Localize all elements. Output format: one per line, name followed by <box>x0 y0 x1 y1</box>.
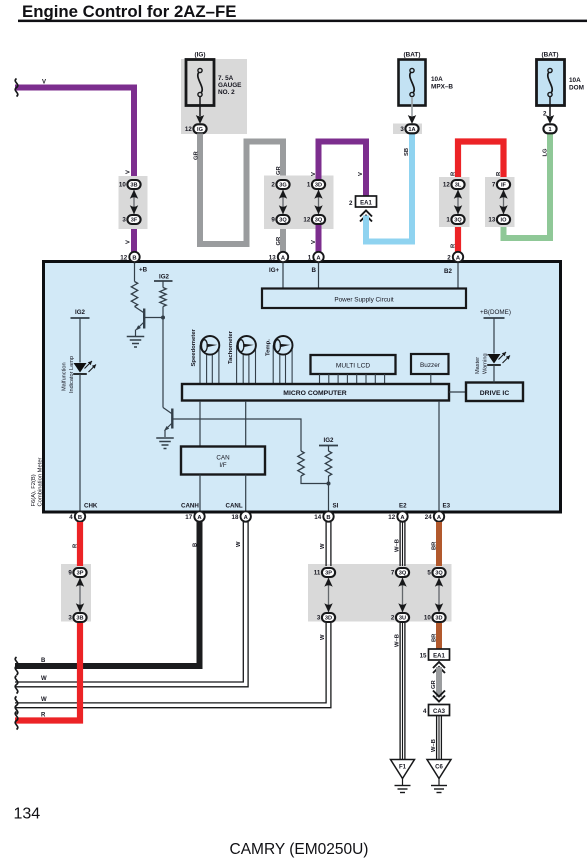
svg-text:IF: IF <box>501 183 507 189</box>
wire V (violet) from EA1 junction to meter pin 1A <box>311 142 366 253</box>
svg-text:EA1: EA1 <box>433 654 445 660</box>
svg-text:Buzzer: Buzzer <box>420 362 441 369</box>
svg-text:12: 12 <box>443 182 450 189</box>
svg-text:V: V <box>126 240 132 244</box>
title: Engine Control for 2AZ-FE <box>18 2 587 22</box>
transistor Q2 (NPN) <box>163 408 301 452</box>
IG2 rail with resistor R4 to SI <box>319 437 338 486</box>
svg-text:LG: LG <box>543 148 549 157</box>
svg-text:IG2: IG2 <box>75 309 86 316</box>
page number <box>14 806 41 823</box>
fuse 10A DOM (BAT) <box>537 52 584 134</box>
LED malfunction indicator lamp <box>62 356 97 393</box>
meter pin 4 B (CHK) <box>69 511 85 521</box>
svg-text:Power Supply Circuit: Power Supply Circuit <box>334 297 394 304</box>
wire W (white) SI to left harness <box>15 522 331 714</box>
svg-text:14: 14 <box>314 514 321 521</box>
svg-text:MPX–B: MPX–B <box>431 84 453 91</box>
svg-text:10: 10 <box>119 182 126 189</box>
svg-text:4: 4 <box>423 708 427 715</box>
svg-text:3P: 3P <box>325 571 332 577</box>
junction connector EA1 (bottom) <box>420 649 450 660</box>
svg-text:3P: 3P <box>77 571 84 577</box>
svg-text:Engine Control for 2AZ–FE: Engine Control for 2AZ–FE <box>22 2 236 21</box>
svg-text:2: 2 <box>391 615 395 622</box>
meter pin 1 A (B) <box>308 252 324 274</box>
E3 wire from micro computer <box>439 401 451 512</box>
svg-text:13: 13 <box>269 254 276 261</box>
svg-text:CA3: CA3 <box>433 709 446 715</box>
svg-text:3Q: 3Q <box>315 218 323 224</box>
svg-text:Warning: Warning <box>483 353 489 374</box>
svg-text:EA1: EA1 <box>360 201 372 207</box>
svg-text:W: W <box>320 634 326 640</box>
svg-text:IO: IO <box>501 218 508 224</box>
transistor Q1 (NPN) <box>135 307 164 337</box>
svg-text:2: 2 <box>447 254 451 261</box>
svg-text:B: B <box>312 267 317 274</box>
svg-text:GR: GR <box>194 150 200 160</box>
gauge speedometer <box>191 328 219 383</box>
svg-text:3G: 3G <box>279 183 286 189</box>
CAN I/F box <box>181 447 265 475</box>
svg-text:CANH: CANH <box>181 503 199 510</box>
svg-text:W: W <box>41 676 47 682</box>
footer CAMRY <box>230 841 369 858</box>
wire GR (gray) EA1 to CA3 <box>431 667 439 697</box>
svg-text:12: 12 <box>120 254 127 261</box>
svg-text:3D: 3D <box>315 183 322 189</box>
svg-text:I/F: I/F <box>219 462 226 469</box>
svg-text:(BAT): (BAT) <box>404 52 421 59</box>
svg-text:5: 5 <box>427 570 431 577</box>
svg-text:3: 3 <box>317 615 321 622</box>
svg-text:CAMRY (EM0250U): CAMRY (EM0250U) <box>230 841 369 858</box>
svg-text:12: 12 <box>303 217 310 224</box>
LED master warning <box>475 352 510 383</box>
power supply circuit box <box>262 289 466 309</box>
connector pair 3Q-3U <box>391 568 409 622</box>
svg-text:3B: 3B <box>130 183 137 189</box>
connector pair 3G-3Q <box>271 180 289 224</box>
wires CAN I/F to CANH/CANL pins <box>181 475 246 512</box>
connector pair IF-IO <box>488 180 510 224</box>
svg-text:CHK: CHK <box>84 503 98 510</box>
wire W-B CA3 to ground C6 <box>431 716 441 760</box>
meter pin 13 A (IG+) <box>269 252 288 274</box>
combination meter block F6(A) F2(B) <box>31 262 561 513</box>
svg-text:Speedometer: Speedometer <box>191 328 197 366</box>
svg-text:IG2: IG2 <box>159 274 170 281</box>
connector pair 3D-3Q <box>303 180 325 224</box>
wire B (black) CANH to left harness <box>15 522 200 675</box>
svg-text:18: 18 <box>232 514 239 521</box>
svg-text:7. 5A: 7. 5A <box>218 75 234 82</box>
meter pin 2 A (B2) <box>444 252 463 275</box>
connector pair 3P-3D <box>314 568 335 622</box>
svg-text:10A: 10A <box>431 76 443 83</box>
meter pin 24 A (E3) <box>425 511 444 521</box>
svg-text:7: 7 <box>492 182 496 189</box>
svg-text:V: V <box>126 170 132 174</box>
connector pair 3B-3F <box>119 180 141 224</box>
svg-text:B: B <box>132 255 136 261</box>
MULTI LCD box <box>311 355 396 385</box>
svg-text:12: 12 <box>185 126 192 133</box>
svg-text:1A: 1A <box>408 127 415 133</box>
svg-text:F1: F1 <box>399 765 407 771</box>
node SI wire <box>329 484 339 512</box>
buzzer box <box>411 354 449 385</box>
svg-text:IG2: IG2 <box>324 437 335 444</box>
drive IC box <box>449 383 523 402</box>
connector band gray background (SI/E2/E3) <box>308 564 452 622</box>
svg-text:R: R <box>41 713 46 719</box>
svg-text:+B: +B <box>139 267 148 274</box>
wire node to transistor Q2 <box>162 318 164 408</box>
svg-text:W–B: W–B <box>395 539 401 552</box>
fuse F1 7.5A GAUGE NO.2 (IG) <box>181 52 247 135</box>
svg-text:E3: E3 <box>443 503 451 510</box>
junction connector EA1 (top) <box>349 196 376 207</box>
svg-text:Indicator Lamp: Indicator Lamp <box>69 356 75 393</box>
wire GR (gray) from GAUGE fuse to meter pin 13A <box>194 134 284 253</box>
meter pin 14 B (SI) <box>314 511 333 521</box>
svg-text:E2: E2 <box>399 503 407 510</box>
svg-text:10A: 10A <box>569 77 581 84</box>
wire W-B E2 to ground F1 <box>395 522 405 759</box>
svg-text:9: 9 <box>271 217 275 224</box>
svg-text:Temp.: Temp. <box>266 339 272 356</box>
connector pair 3L-3Q <box>443 180 465 224</box>
micro computer box <box>182 384 449 401</box>
wires micro computer to CAN I/F <box>200 401 246 447</box>
svg-text:Combination Meter: Combination Meter <box>38 457 44 506</box>
svg-text:3F: 3F <box>131 218 138 224</box>
wire R (red) from 3L/3Q to meter pin 2A and to IF <box>451 142 504 253</box>
svg-text:11: 11 <box>314 570 321 577</box>
svg-text:3U: 3U <box>399 616 406 622</box>
connector pair 3P/3B gray background <box>61 564 91 622</box>
svg-text:GR: GR <box>276 236 282 246</box>
svg-text:1: 1 <box>446 217 450 224</box>
wire BR (brown) E3 to EA1 <box>432 522 440 649</box>
svg-text:3B: 3B <box>76 616 83 622</box>
svg-text:V: V <box>311 172 317 176</box>
svg-text:IG+: IG+ <box>269 267 280 274</box>
E2 label <box>399 503 407 510</box>
svg-text:DOM: DOM <box>569 85 584 92</box>
svg-text:F6(A), F2(B): F6(A), F2(B) <box>31 474 37 506</box>
svg-text:W: W <box>236 541 242 547</box>
+B(DOME) rail <box>480 309 511 354</box>
wire LG (light green) from DOM fuse to IO <box>504 134 551 238</box>
fuse 10A MPX-B (BAT) <box>393 52 453 135</box>
meter pin 17 A (CANH) <box>185 511 204 521</box>
wire MIL to CHK pin <box>80 374 98 512</box>
svg-text:3D: 3D <box>325 616 332 622</box>
svg-text:IG: IG <box>197 127 203 133</box>
svg-text:(BAT): (BAT) <box>542 52 559 59</box>
chevron continuation at EA1 <box>360 211 372 222</box>
svg-text:3: 3 <box>400 126 404 133</box>
svg-text:Malfunction: Malfunction <box>62 362 68 391</box>
svg-text:CAN: CAN <box>216 455 230 462</box>
svg-text:3Q: 3Q <box>399 571 407 577</box>
svg-text:GAUGE: GAUGE <box>218 82 242 89</box>
svg-text:2: 2 <box>543 111 547 118</box>
resistor on +B rail <box>131 263 137 307</box>
svg-text:BR: BR <box>432 633 438 642</box>
junction connector CA3 <box>423 705 449 716</box>
svg-text:Tachometer: Tachometer <box>228 330 234 364</box>
svg-text:GR: GR <box>431 679 437 689</box>
svg-text:24: 24 <box>425 514 432 521</box>
svg-text:2: 2 <box>349 200 353 207</box>
svg-text:Master: Master <box>475 357 481 374</box>
svg-text:9: 9 <box>68 570 72 577</box>
ground (Q2 emitter) <box>156 438 174 449</box>
svg-text:3Q: 3Q <box>435 571 443 577</box>
meter pin 12 B (+B) <box>120 252 147 274</box>
wire SB (sky blue) from MPX-B fuse to EA1 <box>366 134 412 242</box>
meter pin 12 A (E2) <box>388 511 407 521</box>
IG2 rail for malfunction indicator lamp <box>71 309 90 363</box>
svg-text:3D: 3D <box>435 616 442 622</box>
svg-text:DRIVE IC: DRIVE IC <box>480 390 510 397</box>
connector pairs 3G/3Q and 3D/3Q gray background <box>264 176 334 230</box>
svg-text:1: 1 <box>548 127 551 133</box>
ground (Q1 emitter) <box>127 337 145 348</box>
svg-text:NO. 2: NO. 2 <box>218 89 235 96</box>
svg-text:(IG): (IG) <box>194 52 205 59</box>
svg-text:B: B <box>326 515 330 521</box>
connector pair 3L/3Q gray background <box>439 177 470 227</box>
svg-text:B: B <box>193 543 199 547</box>
meter pin 18 A (CANL) <box>232 511 251 521</box>
svg-text:SB: SB <box>404 148 410 156</box>
svg-text:3Q: 3Q <box>279 218 287 224</box>
svg-text:+B(DOME): +B(DOME) <box>480 309 511 316</box>
svg-text:3L: 3L <box>455 183 462 189</box>
svg-text:7: 7 <box>391 570 395 577</box>
IG2 rail with resistor <box>154 274 173 320</box>
gauge tachometer <box>228 330 256 383</box>
svg-text:V: V <box>311 240 317 244</box>
svg-text:3: 3 <box>122 217 126 224</box>
svg-text:C6: C6 <box>435 765 443 771</box>
resistor R3 to SI <box>298 451 329 484</box>
chevron below EA1 <box>433 662 445 673</box>
svg-text:SI: SI <box>333 503 339 510</box>
svg-text:B2: B2 <box>444 268 452 275</box>
svg-text:V: V <box>358 172 364 176</box>
svg-text:MICRO COMPUTER: MICRO COMPUTER <box>283 390 347 397</box>
svg-text:CANL: CANL <box>226 503 243 510</box>
svg-text:17: 17 <box>185 514 192 521</box>
svg-text:B: B <box>78 515 82 521</box>
connector pair IF/IO gray background <box>485 177 515 227</box>
connector pair 3P-3B <box>68 568 86 622</box>
svg-text:10: 10 <box>424 615 431 622</box>
connector pair 3Q-3D <box>424 568 446 622</box>
ground F1 <box>391 760 415 793</box>
svg-text:GR: GR <box>276 165 282 175</box>
wire R (red) CHK to left harness <box>15 522 80 730</box>
svg-text:MULTI LCD: MULTI LCD <box>336 363 371 370</box>
svg-text:W: W <box>41 697 47 703</box>
svg-text:3Q: 3Q <box>454 218 462 224</box>
svg-text:3: 3 <box>68 615 72 622</box>
svg-text:1: 1 <box>308 254 312 261</box>
svg-text:4: 4 <box>69 514 73 521</box>
svg-text:134: 134 <box>14 806 41 823</box>
svg-text:W–B: W–B <box>431 739 437 752</box>
svg-text:W: W <box>320 543 326 549</box>
svg-text:12: 12 <box>388 514 395 521</box>
wires to power supply circuit <box>283 263 458 289</box>
svg-text:2: 2 <box>271 182 275 189</box>
gauge temp <box>266 336 293 384</box>
svg-text:1: 1 <box>307 182 311 189</box>
svg-text:V: V <box>42 80 46 86</box>
svg-text:13: 13 <box>488 217 495 224</box>
connector pair 3B/3F gray background <box>119 176 148 229</box>
wire V (violet) from left harness to meter pin 12B <box>15 79 134 253</box>
svg-text:BR: BR <box>432 541 438 550</box>
svg-text:W–B: W–B <box>395 634 401 647</box>
wire W (white) CANL to left harness <box>15 522 248 694</box>
svg-text:B: B <box>41 658 46 664</box>
ground C6 <box>427 760 451 793</box>
svg-text:15: 15 <box>420 653 427 660</box>
chevron above CA3 <box>433 691 445 702</box>
